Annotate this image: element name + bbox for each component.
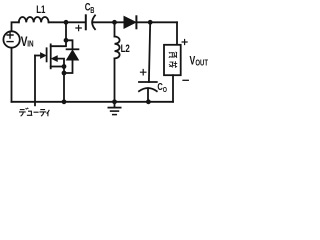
wire: L1 to capacitor CB [49,21,85,23]
capacitor CO top lead [149,22,150,82]
svg-text:L2: L2 [121,43,130,56]
wire: bottom bus [12,101,174,103]
MOSFET Q1 source stub [51,66,64,68]
capacitor CO polarity plus [141,70,146,75]
ground [108,107,120,109]
capacitor CO top plate [139,81,157,83]
wire: load bottom terminal [172,75,174,102]
L2 bus junction dot [112,99,117,104]
body diode cathode bar [67,48,79,50]
inductor L2 [115,37,120,59]
MOSFET Q1 gate lead [35,55,41,57]
voltage source VIN circle [3,31,19,47]
svg-text:O: O [163,86,167,94]
wire: source down to bottom bus [63,67,65,102]
label VIN [21,34,34,50]
inductor L2 bottom lead [114,58,116,101]
label L2 [121,43,130,56]
svg-text:L1: L1 [36,4,46,17]
inductor L2 top lead [114,22,116,36]
capacitor CB polarity plus [76,25,81,30]
wire: output corner down to load [176,22,178,45]
source node junction dot [62,64,67,69]
label duty (katakana de-yu-ti) [19,108,49,117]
diode D1 cathode bar [135,16,137,28]
wire: node A down to drain node [65,22,67,40]
MOSFET Q1 gate arrow [41,53,46,58]
drain node junction dot [64,38,69,43]
label VOUT [190,55,209,67]
MOSFET Q1 drain stub [51,40,66,46]
node A junction dot [64,20,69,25]
load box [164,45,181,75]
MOSFET Q1 body arrow [52,56,57,61]
capacitor CO curved bottom plate [139,88,157,91]
label L1 [36,4,46,17]
wire: VIN lower lead / left bus [11,48,13,102]
ground stub [114,102,116,108]
wire: CB to diode D1 [93,21,124,23]
inductor L1 [19,17,49,22]
capacitor CB left plate [85,15,87,29]
label CB [85,1,95,15]
node L2 junction dot [112,20,117,25]
source bus junction dot [62,99,67,104]
body diode top lead [66,40,73,49]
MOSFET Q1 gate plate [46,48,48,61]
svg-text:OUT: OUT [195,60,208,68]
capacitor CB right curved plate [92,15,95,29]
svg-text:B: B [90,7,94,15]
VOUT plus sign [182,40,187,45]
body diode triangle [67,50,79,60]
voltage source VIN minus [7,41,13,43]
capacitor CO bottom lead [147,88,149,102]
label CO [157,81,167,94]
VOUT minus sign [183,79,188,81]
body diode anode junction dot [62,71,67,76]
voltage source VIN plus [7,32,13,38]
svg-text:V: V [190,55,196,67]
MOSFET Q1 gate drive line to duty label [34,56,36,106]
body diode anode lead [64,60,73,73]
MOSFET Q1 channel plate [50,44,52,68]
CO bus junction dot [146,99,151,104]
label load (chinese fu zai) rotated [169,52,177,68]
node CO junction dot [148,20,153,25]
wire: top bus left segment with top-left corner [12,22,19,31]
wire: D1 to output corner [136,21,177,23]
diode D1 triangle [124,16,136,28]
svg-text:IN: IN [27,39,33,49]
